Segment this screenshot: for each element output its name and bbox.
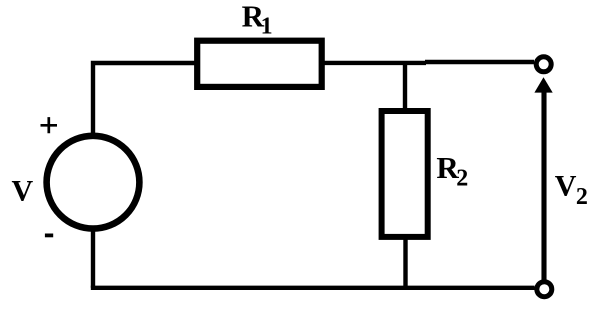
arrow V2 shaft	[541, 91, 546, 280]
wire junction to R2 top	[403, 62, 407, 112]
terminal bottom	[537, 282, 552, 297]
wire bottom rail	[91, 286, 535, 290]
wire R1 right to output node (left part)	[322, 61, 426, 65]
resistor R1	[197, 41, 322, 87]
svg-text:1: 1	[261, 13, 273, 39]
wire top-left (source top to R1 left)	[93, 63, 197, 140]
svg-text:V: V	[555, 170, 577, 203]
svg-text:2: 2	[456, 166, 468, 192]
svg-text:V: V	[12, 174, 34, 207]
resistor R2	[382, 111, 428, 237]
label + (source positive)	[41, 117, 58, 133]
voltage source V	[47, 136, 140, 229]
wire R1 right to output node (right part)	[425, 60, 534, 64]
label - (source negative)	[45, 234, 53, 238]
wire bottom-left (source bottom to bottom rail)	[91, 224, 95, 288]
wire R2 bottom to bottom rail	[403, 234, 407, 289]
svg-text:2: 2	[576, 184, 588, 210]
terminal top	[536, 57, 551, 72]
arrow V2 head	[534, 77, 552, 92]
